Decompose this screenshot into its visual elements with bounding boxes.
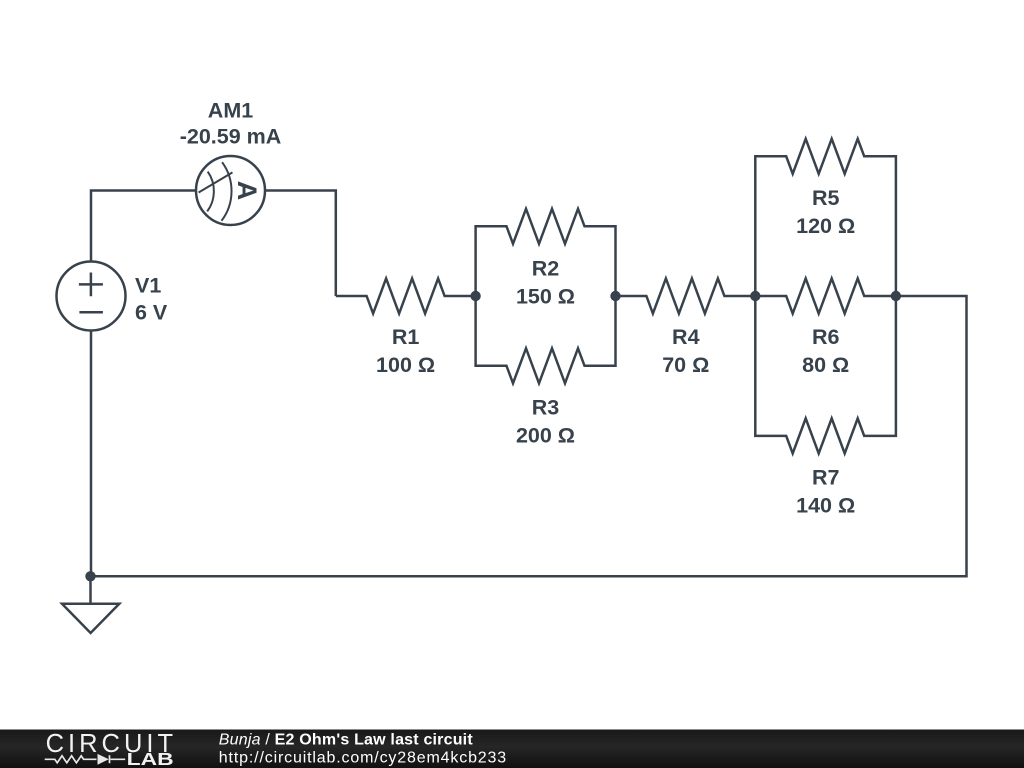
svg-text:R7: R7: [812, 465, 840, 489]
resistor R5 branch: [755, 139, 896, 296]
svg-text:140 Ω: 140 Ω: [796, 493, 855, 517]
svg-text:R6: R6: [812, 325, 840, 349]
svg-text:R1: R1: [392, 325, 420, 349]
wire V1 bottom: [90, 331, 93, 577]
footer logo resistor-diode glyph: [45, 754, 126, 765]
svg-text:120 Ω: 120 Ω: [796, 214, 855, 238]
svg-text:LAB: LAB: [127, 749, 174, 768]
svg-text:R2: R2: [532, 257, 560, 281]
svg-text:80 Ω: 80 Ω: [802, 353, 849, 377]
resistor R1: [336, 279, 476, 314]
wire right side to bottom rail: [91, 296, 967, 576]
ground: [62, 576, 119, 633]
resistor R2 branch: [476, 209, 616, 296]
svg-text:70 Ω: 70 Ω: [662, 353, 709, 377]
resistor R6: [755, 279, 896, 314]
node A junction: [470, 291, 480, 301]
svg-text:150 Ω: 150 Ω: [516, 285, 575, 309]
node D junction: [891, 291, 901, 301]
footer bar: [0, 730, 1024, 768]
svg-text:Bunja / E2 Ohm's Law last circ: Bunja / E2 Ohm's Law last circuit: [219, 732, 474, 749]
ammeter A letter: [232, 181, 262, 201]
resistor R3 branch: [476, 296, 616, 383]
svg-text:100 Ω: 100 Ω: [376, 353, 435, 377]
resistor R7 branch: [755, 296, 896, 453]
svg-text:A: A: [232, 181, 262, 201]
node B junction: [610, 291, 620, 301]
svg-text:R4: R4: [672, 325, 700, 349]
wire V1 top to AM1: [91, 191, 196, 263]
svg-text:R5: R5: [812, 186, 840, 210]
svg-text:V1: V1: [135, 274, 161, 298]
node C junction: [750, 291, 760, 301]
svg-text:R3: R3: [532, 395, 560, 419]
svg-text:-20.59 mA: -20.59 mA: [180, 125, 282, 149]
svg-text:6 V: 6 V: [135, 301, 168, 325]
ground node junction: [85, 571, 95, 581]
voltage source V1: [57, 262, 126, 331]
ammeter AM1: [196, 156, 265, 225]
footer CircuitLab logo wordmark: [46, 730, 174, 768]
wire AM1 to R1 corner: [265, 191, 336, 297]
svg-text:http://circuitlab.com/cy28em4k: http://circuitlab.com/cy28em4kcb233: [219, 750, 506, 767]
svg-text:AM1: AM1: [208, 99, 253, 123]
resistor R4: [616, 279, 756, 314]
svg-text:200 Ω: 200 Ω: [516, 423, 575, 447]
